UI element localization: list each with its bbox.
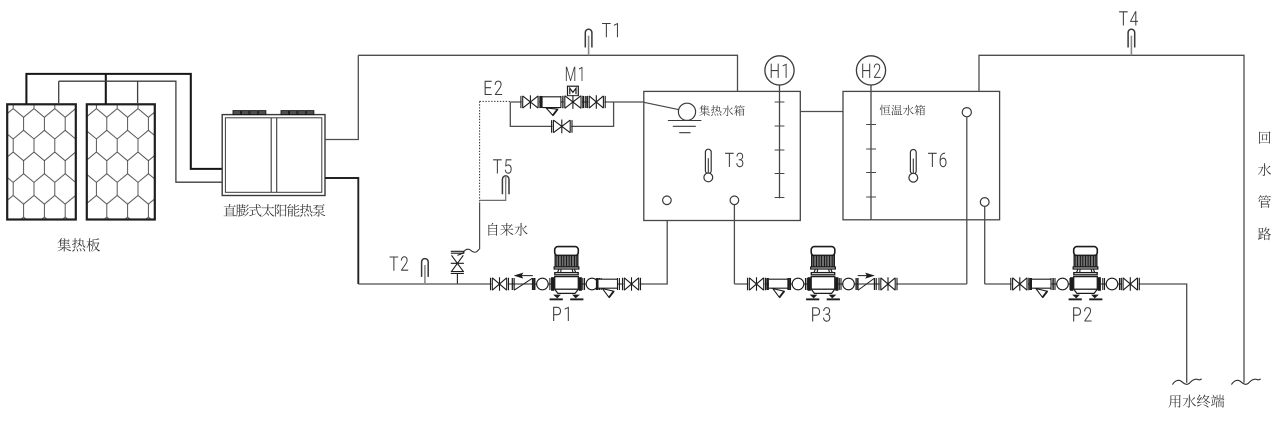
label T3 — [725, 153, 743, 168]
label return line 回水管路 — [1259, 131, 1270, 143]
heat pump top vents — [233, 111, 314, 115]
level gauge H2 tube — [870, 85, 872, 220]
flexible joint P3 suction flex — [789, 278, 807, 290]
level gauge H1 tube — [779, 85, 781, 198]
label H2 text — [862, 63, 881, 77]
label tank1 集热水箱 — [699, 105, 744, 116]
check valve P1 check — [512, 273, 534, 290]
label T5 — [493, 159, 512, 173]
label M1 — [566, 67, 583, 81]
label E2 — [485, 81, 503, 95]
label T4 — [1119, 11, 1138, 25]
strainer P3 strainer — [766, 278, 790, 297]
pipe: wavy to fill valve — [457, 253, 464, 256]
label collector panels 集热板 — [57, 238, 100, 251]
strainer P2 strainer — [1029, 278, 1053, 297]
label H1 text — [771, 64, 787, 78]
flexible joint P2 suction flex — [1053, 278, 1071, 290]
solar collector panel 1 — [7, 104, 76, 219]
label tap water 自来水 — [488, 223, 527, 236]
fill valve (vertical) — [451, 251, 464, 284]
valve P1 suction valve — [491, 277, 509, 291]
label T2 — [390, 256, 409, 270]
float valve link — [644, 102, 679, 109]
label T6 — [928, 153, 946, 168]
H1 gauge ticks — [775, 102, 785, 198]
motor actuator M of M1 — [568, 86, 579, 96]
pipe: port B drop to P3 — [733, 205, 735, 284]
label T1 — [602, 23, 618, 37]
strainer inlet strainer — [540, 96, 563, 115]
valve inlet gate valve 2 — [587, 95, 605, 108]
label usage terminals 用水终端 — [1169, 395, 1225, 408]
pipe: transfer pump P3 line — [734, 283, 966, 285]
heat pump unit outer case — [222, 115, 325, 196]
label heat pump 直膨式太阳能热泵 — [223, 204, 325, 217]
temperature sensor T2 — [422, 259, 429, 284]
water level mark — [668, 121, 702, 133]
solar collector panel 2 — [87, 104, 155, 219]
heat pump inner panel — [225, 118, 321, 193]
pipe: tap water drop — [479, 202, 481, 249]
temperature sensor T4 — [1128, 29, 1135, 55]
wavy break: usage terminal — [1172, 379, 1201, 385]
pipe: tank2 outlet drop to P2 — [984, 206, 986, 284]
valve bypass valve — [552, 120, 572, 134]
tank2 outlet port — [980, 198, 989, 207]
valve P3 suction valve — [748, 277, 766, 291]
level transmitter H1 — [765, 56, 794, 85]
pipe: tank1 to tank2 — [800, 111, 843, 113]
float ball — [678, 103, 695, 120]
pump P3 — [806, 247, 840, 301]
label tank2 恒温水箱 — [880, 105, 925, 116]
label P3 — [812, 307, 830, 322]
pipe: top supply line into collection tank — [358, 55, 737, 91]
pipe: heat pump hot supply to roofline — [325, 55, 358, 139]
level transmitter H2 — [856, 56, 885, 85]
wavy break: return terminal — [1231, 379, 1260, 385]
strainer P1 strainer — [596, 278, 620, 297]
pipe: return header and riser into tank2 — [979, 55, 1244, 382]
collection tank 集热水箱 — [644, 91, 801, 220]
wire: collector return loop (thin) — [59, 81, 223, 182]
valve P3 discharge valve — [879, 277, 897, 291]
temperature sensor T1 — [585, 29, 592, 55]
tank1 outlet port B — [730, 196, 739, 205]
wire: collector supply loop (thick) — [26, 74, 222, 169]
flexible joint P1 suction flex — [533, 278, 551, 290]
heat pump centre divider — [271, 118, 277, 193]
valve motorised valve M1 — [563, 95, 583, 109]
temperature sensor T5 — [502, 176, 509, 194]
wavy break: tap water source — [463, 249, 480, 253]
thermometer T6 — [909, 150, 918, 183]
pump P2 — [1069, 247, 1103, 301]
valve P1 discharge valve — [623, 277, 641, 291]
tank2 inlet port (top right, dip tube) — [962, 108, 971, 117]
label P1 — [553, 307, 569, 321]
tank1 outlet port A — [663, 196, 672, 205]
node E2 dashed sensing line — [480, 101, 511, 202]
thermostatic tank 恒温水箱 — [843, 91, 1000, 219]
valve inlet gate valve 1 — [521, 95, 540, 108]
flange pair — [584, 96, 586, 108]
pipe: supply pump P2 line to terminals — [985, 284, 1187, 383]
pipe: heat pump outlet down to pump suction main — [325, 178, 358, 284]
pipe: bypass loop under M1 — [510, 102, 613, 126]
valve P2 suction valve — [1011, 277, 1029, 291]
pipe: P3 discharge riser into tank2 — [966, 117, 968, 284]
pump P1 — [550, 247, 584, 301]
label P2 — [1073, 307, 1092, 321]
thermometer T3 — [704, 149, 713, 182]
wire: panel2 supply riser — [105, 74, 107, 104]
pipe: T5 tail to sensing line — [480, 182, 506, 200]
check valve P3 check — [856, 273, 876, 290]
pipe: pump P1 suction/discharge main — [358, 205, 667, 284]
valve P2 discharge valve — [1121, 277, 1139, 291]
flexible joint P1 discharge flex — [583, 278, 601, 290]
H2 gauge ticks — [866, 125, 876, 198]
flexible joint P2 discharge flex — [1103, 278, 1121, 290]
pipe: make-up water line into collection tank — [510, 101, 644, 103]
flexible joint P3 discharge flex — [839, 278, 857, 290]
